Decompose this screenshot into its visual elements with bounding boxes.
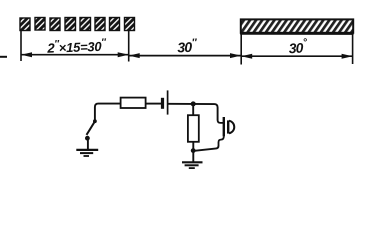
hatched bar — [241, 19, 353, 32]
hatched block 3 — [50, 18, 60, 31]
node junction dot — [191, 101, 196, 106]
hatched block 2 — [35, 18, 45, 31]
earphone T1 lead-in jog — [218, 120, 224, 123]
earphone T1 right bar — [227, 120, 229, 133]
hatched block 8 — [125, 18, 135, 31]
hatched block 5 — [80, 18, 91, 31]
stray margin tick at left edge — [0, 56, 7, 58]
extension line left of blocks row — [20, 31, 22, 61]
wire battery to right corner — [168, 104, 218, 121]
wire R2 to ground — [192, 142, 194, 162]
earphone T1 left bar — [223, 117, 225, 136]
battery B1 long plate — [167, 90, 169, 114]
switch contact dot — [85, 136, 90, 141]
hatched block 7 — [110, 18, 120, 31]
junction dot bottom — [191, 148, 196, 153]
hatched block 1 — [20, 18, 30, 31]
switch S1 pivot dot — [93, 119, 97, 123]
extension line right of blocks row — [128, 31, 130, 62]
dimension line 2inx15 span — [21, 52, 129, 57]
resistor R2 — [188, 115, 199, 142]
switch S1 blade — [87, 121, 96, 135]
wire R1 to battery — [146, 103, 162, 105]
hatched block 6 — [95, 18, 105, 31]
hatched block 4 — [65, 18, 76, 31]
wire switch riser to resistor — [95, 104, 121, 122]
dimension line bar 30in span — [241, 54, 352, 59]
wire contact to ground — [87, 140, 89, 150]
earphone T1 shell semicircle — [229, 121, 234, 134]
battery B1 short plate — [161, 98, 164, 109]
extension line under bar left edge — [240, 32, 242, 65]
earphone T1 bottom jog — [219, 136, 224, 146]
extension line under bar right edge — [352, 32, 354, 64]
wire earphone to bottom junction — [193, 146, 218, 151]
wire node to resistor R2 — [192, 104, 194, 115]
ground G1 — [76, 150, 98, 156]
resistor R1 — [121, 98, 146, 108]
ground G2 — [182, 162, 203, 168]
dimension line middle 30in span — [129, 53, 241, 58]
